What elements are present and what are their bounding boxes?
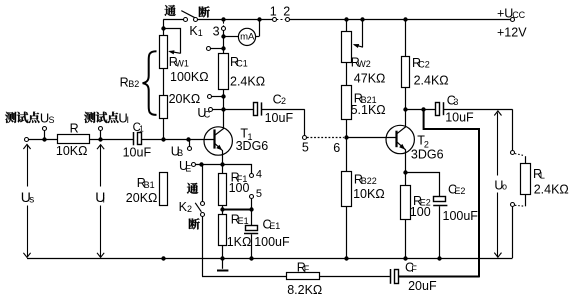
svg-text:2: 2 bbox=[187, 204, 192, 214]
svg-text:5: 5 bbox=[256, 188, 262, 200]
svg-text:100: 100 bbox=[229, 181, 250, 195]
svg-text:o: o bbox=[502, 182, 507, 192]
svg-text:20KΩ: 20KΩ bbox=[126, 191, 158, 205]
svg-text:3: 3 bbox=[453, 97, 458, 107]
svg-text:C1: C1 bbox=[236, 59, 248, 69]
svg-text:2: 2 bbox=[283, 4, 290, 18]
svg-text:+U: +U bbox=[497, 7, 513, 21]
svg-text:B22: B22 bbox=[361, 176, 377, 186]
svg-text:100uF: 100uF bbox=[254, 235, 290, 249]
svg-text:47KΩ: 47KΩ bbox=[354, 72, 386, 86]
svg-text:i: i bbox=[103, 194, 105, 205]
svg-text:1: 1 bbox=[198, 28, 203, 38]
svg-text:CC: CC bbox=[512, 10, 525, 20]
svg-text:s: s bbox=[29, 194, 34, 205]
svg-text:B: B bbox=[177, 148, 183, 158]
svg-text:1: 1 bbox=[139, 125, 144, 134]
svg-text:10uF: 10uF bbox=[445, 111, 474, 125]
svg-text:B2: B2 bbox=[128, 79, 139, 89]
svg-text:2: 2 bbox=[281, 96, 286, 106]
svg-text:F: F bbox=[411, 264, 417, 274]
svg-text:E1: E1 bbox=[238, 216, 249, 226]
svg-text:E1: E1 bbox=[269, 221, 280, 231]
svg-text:2.4KΩ: 2.4KΩ bbox=[414, 74, 449, 88]
svg-text:1: 1 bbox=[270, 4, 277, 18]
svg-text:F: F bbox=[304, 264, 310, 274]
svg-text:4: 4 bbox=[256, 168, 262, 180]
svg-text:3DG6: 3DG6 bbox=[411, 148, 444, 162]
svg-text:L: L bbox=[540, 171, 545, 181]
svg-text:3DG6: 3DG6 bbox=[236, 139, 269, 153]
svg-text:E: E bbox=[185, 163, 191, 173]
svg-text:R: R bbox=[70, 122, 79, 136]
svg-text:5.1KΩ: 5.1KΩ bbox=[351, 103, 386, 117]
svg-text:5: 5 bbox=[302, 140, 309, 154]
svg-text:10uF: 10uF bbox=[123, 145, 152, 159]
svg-text:mA: mA bbox=[240, 32, 255, 43]
svg-text:2.4KΩ: 2.4KΩ bbox=[230, 74, 265, 88]
svg-text:I: I bbox=[127, 115, 130, 125]
svg-text:100uF: 100uF bbox=[443, 209, 479, 223]
svg-text:10KΩ: 10KΩ bbox=[353, 187, 385, 201]
svg-text:6: 6 bbox=[333, 141, 340, 155]
svg-text:W2: W2 bbox=[357, 59, 371, 69]
svg-text:2.4KΩ: 2.4KΩ bbox=[534, 182, 569, 196]
svg-text:8.2KΩ: 8.2KΩ bbox=[287, 283, 322, 297]
svg-text:10uF: 10uF bbox=[265, 111, 294, 125]
svg-text:C: C bbox=[204, 110, 211, 120]
svg-text:20KΩ: 20KΩ bbox=[169, 92, 201, 106]
svg-text:3: 3 bbox=[213, 24, 220, 38]
svg-text:20uF: 20uF bbox=[408, 279, 437, 293]
svg-text:+12V: +12V bbox=[497, 26, 527, 40]
svg-text:B1: B1 bbox=[144, 180, 155, 190]
svg-text:1KΩ: 1KΩ bbox=[227, 235, 252, 249]
svg-text:100KΩ: 100KΩ bbox=[170, 70, 209, 84]
svg-text:E2: E2 bbox=[454, 186, 465, 196]
svg-text:C2: C2 bbox=[418, 60, 430, 70]
svg-text:S: S bbox=[49, 115, 55, 125]
svg-text:10KΩ: 10KΩ bbox=[56, 144, 88, 158]
svg-text:100: 100 bbox=[410, 205, 431, 219]
svg-text:W1: W1 bbox=[175, 59, 189, 69]
